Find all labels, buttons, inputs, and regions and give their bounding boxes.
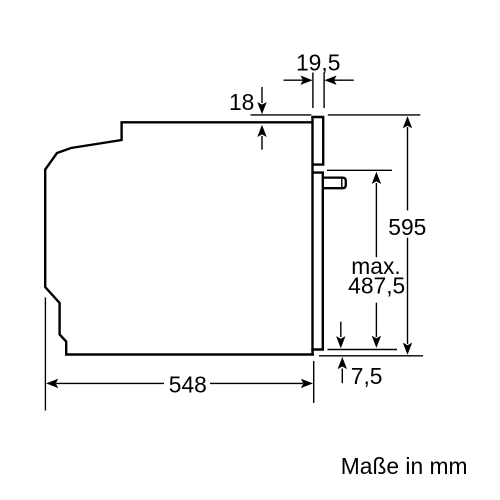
svg-text:487,5: 487,5 — [348, 273, 405, 299]
svg-text:18: 18 — [229, 89, 254, 115]
svg-text:19,5: 19,5 — [296, 49, 340, 75]
svg-text:7,5: 7,5 — [351, 363, 383, 389]
svg-text:Maße in mm: Maße in mm — [341, 453, 468, 479]
svg-text:595: 595 — [388, 214, 426, 240]
svg-text:548: 548 — [169, 371, 207, 397]
